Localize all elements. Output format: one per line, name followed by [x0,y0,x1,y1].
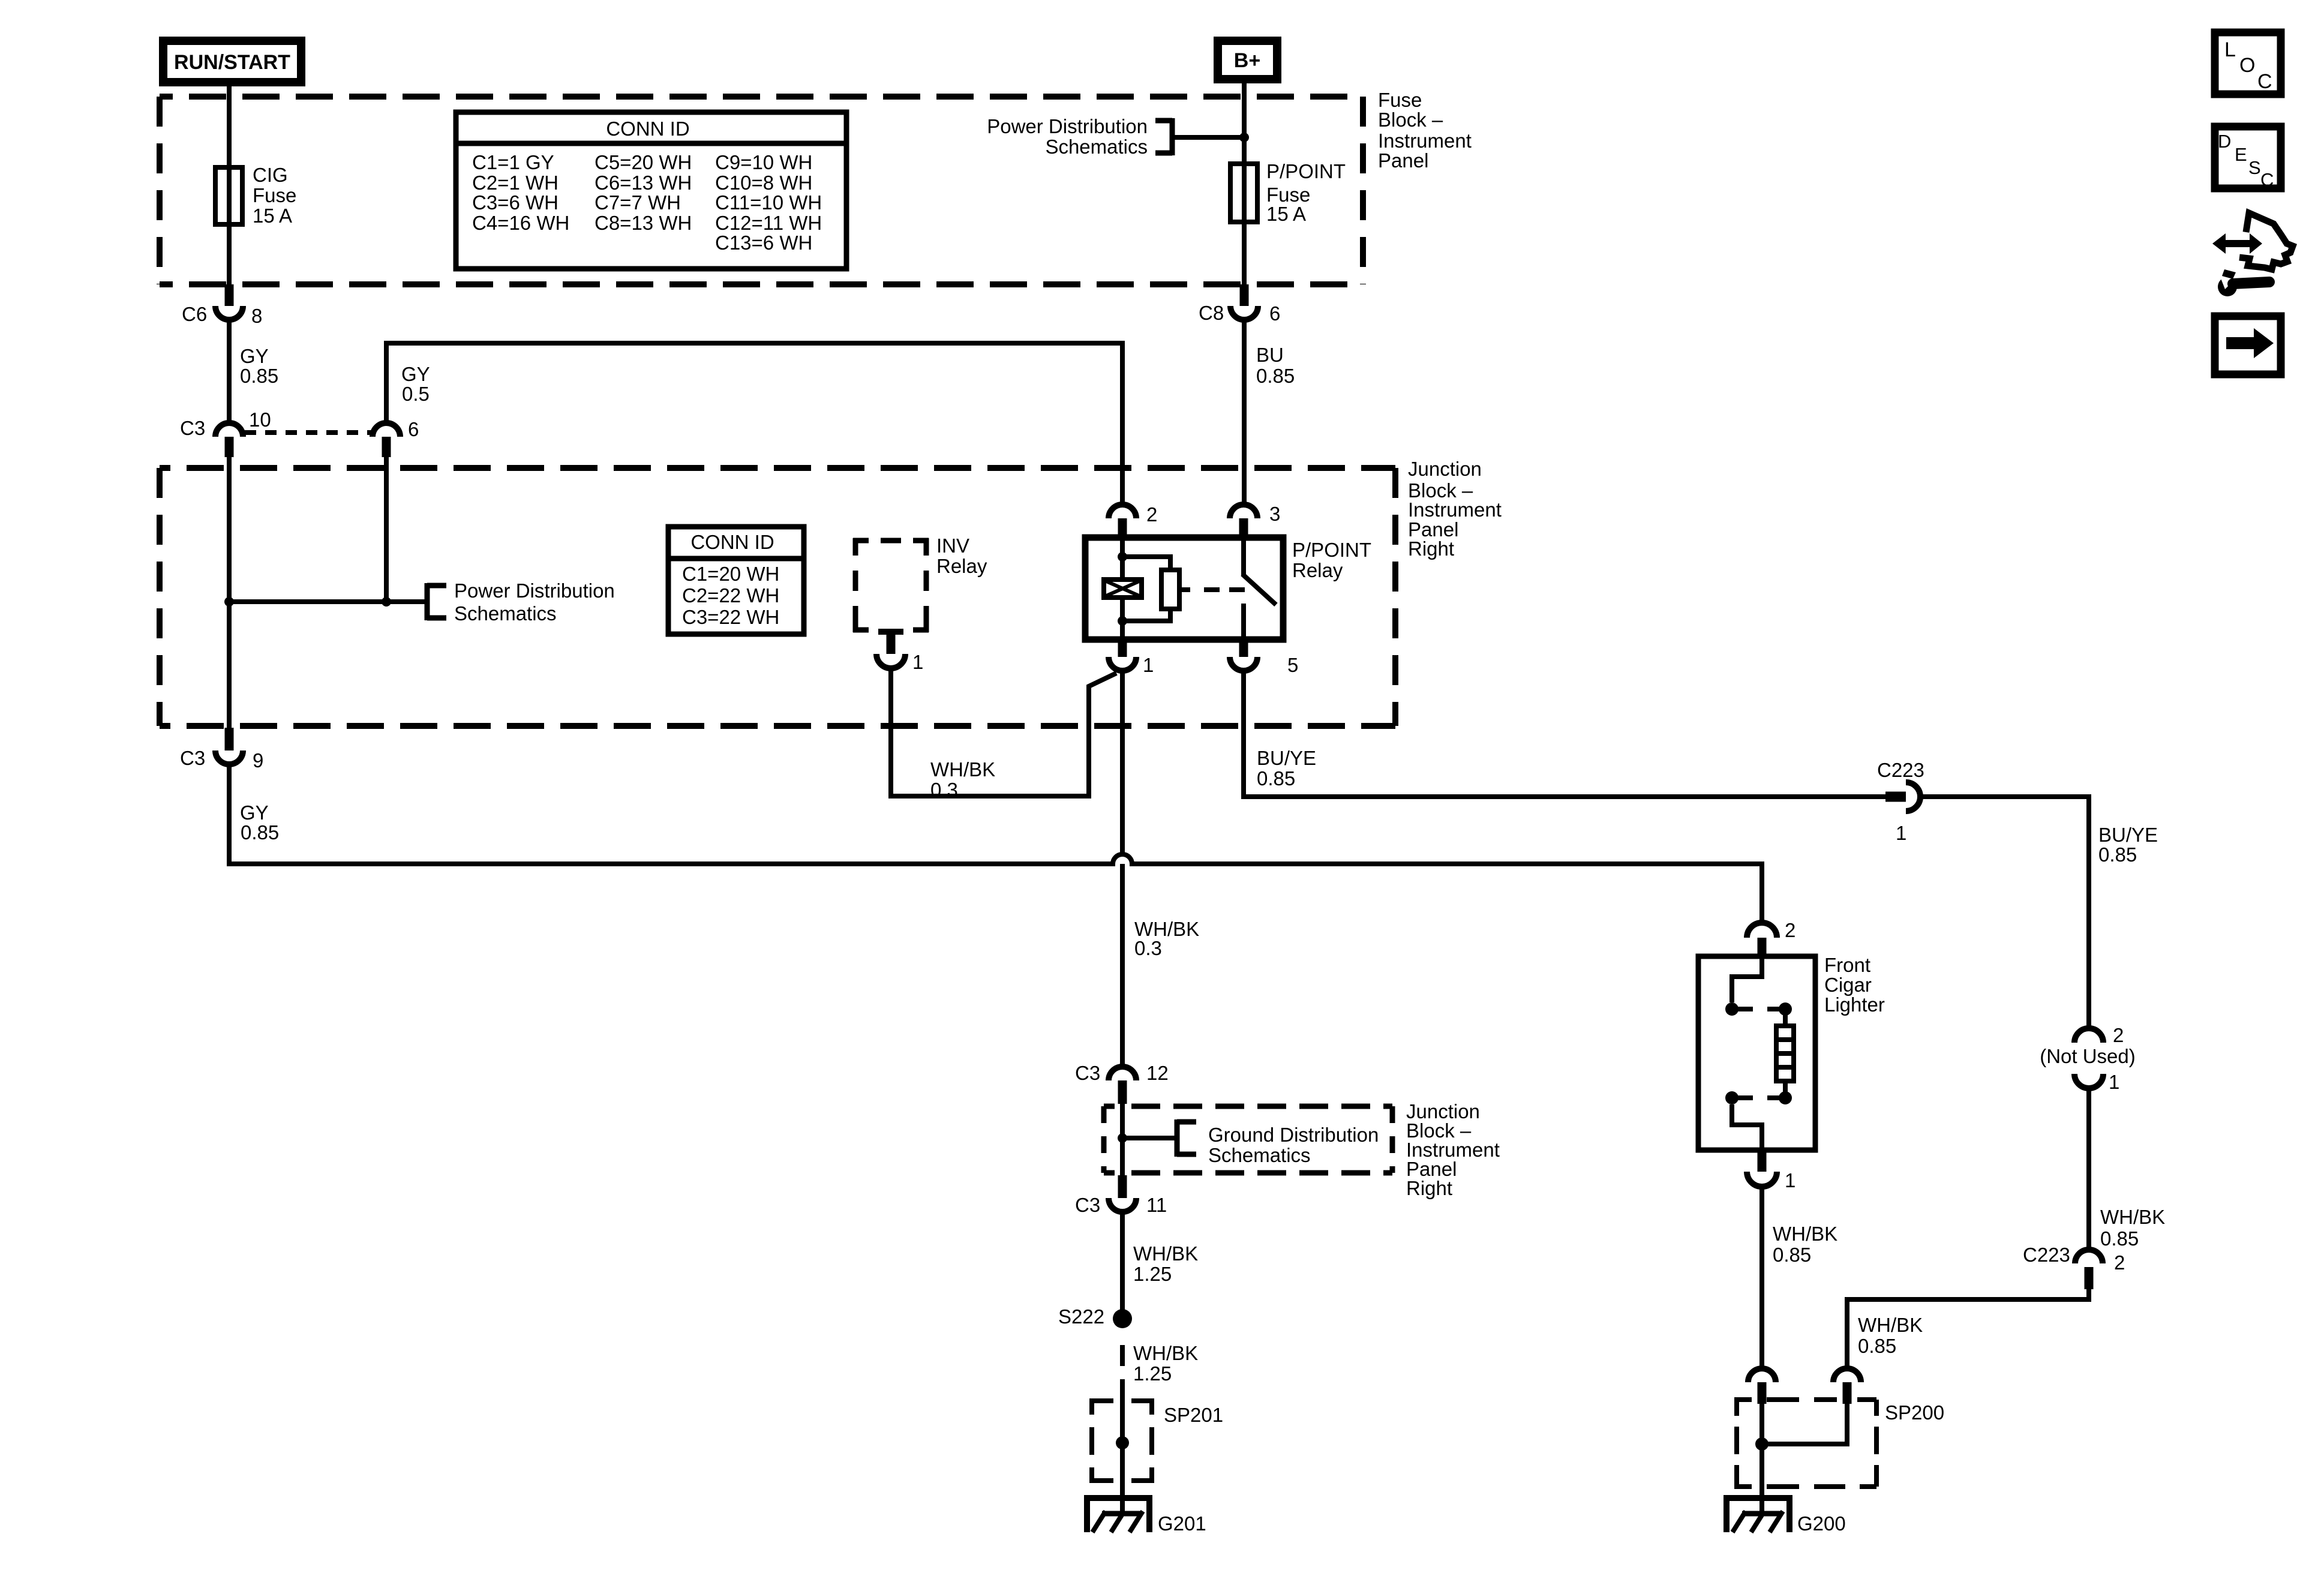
wire SP201 to G201 [1120,1443,1125,1514]
svg-text:RUN/START: RUN/START [174,51,290,74]
svg-text:SP200: SP200 [1885,1401,1944,1424]
svg-text:O: O [2239,54,2255,77]
svg-text:0.85: 0.85 [2100,1227,2139,1250]
svg-text:(Not Used): (Not Used) [2040,1045,2136,1067]
svg-text:Right: Right [1408,538,1454,560]
connector pin 6 (junction block) [373,418,419,457]
svg-text:Lighter: Lighter [1824,993,1885,1016]
svg-text:2: 2 [2114,1251,2125,1274]
net label WH/BK 0.85 (cigar lighter) [1773,1223,1837,1266]
svg-text:1: 1 [1896,822,1906,844]
svg-text:C1=1 GY: C1=1 GY [472,151,554,173]
svg-text:Panel: Panel [1378,149,1428,172]
svg-text:1: 1 [1785,1169,1795,1191]
svg-text:S: S [2248,157,2261,178]
svg-text:6: 6 [408,418,419,440]
wire GY 0.85 C6 to C3 [227,320,232,423]
connector C8 pin 6 [1199,284,1280,325]
svg-text:C13=6 WH: C13=6 WH [715,232,812,254]
wire GY 0.5 stub inside junction block [384,457,389,602]
pin 2 of front cigar lighter [1747,919,1795,959]
svg-text:Instrument: Instrument [1378,130,1472,152]
svg-text:3: 3 [1269,503,1280,525]
connector (Not Used) pin 2 half [2074,1024,2124,1046]
svg-text:C7=7 WH: C7=7 WH [594,191,681,214]
wire tap to power distribution bracket (junction block) [229,599,427,604]
svg-text:0.85: 0.85 [1858,1335,1896,1357]
icon LOC box [2215,32,2281,94]
wire WH/BK 0.85 C223-2 to SP200 [1847,1287,2089,1368]
svg-text:5: 5 [1287,654,1298,676]
svg-text:C: C [2260,169,2274,190]
svg-text:0.5: 0.5 [402,383,430,405]
svg-text:Power Distribution: Power Distribution [987,115,1148,137]
svg-text:2: 2 [1785,919,1795,941]
svg-text:GY: GY [240,801,269,824]
node junction dot GY tap right [382,597,391,607]
svg-text:E: E [2235,144,2247,165]
svg-text:WH/BK: WH/BK [1773,1223,1837,1245]
wire WH/BK 0.3 INV relay pin1 to P/POINT relay pin1 [891,668,1116,796]
wire to power distribution bracket [1175,135,1244,140]
label Front Cigar Lighter [1824,954,1885,1016]
svg-text:2: 2 [2113,1024,2124,1046]
svg-text:Front: Front [1824,954,1870,976]
svg-text:0.85: 0.85 [1773,1244,1811,1266]
power feed box B+ [1214,37,1281,83]
svg-text:Junction: Junction [1408,458,1482,480]
net label BU/YE 0.85 [1257,747,1316,789]
cigar lighter heating element resistor [1776,1009,1794,1098]
net label WH/BK 0.85 (above C223-2) [2100,1206,2165,1250]
table CONN ID (fuse block) [456,112,846,269]
wire BU/YE 0.85 relay pin 5 to C223 [1244,671,1885,797]
node junction dot GY tap left [224,597,234,607]
svg-text:C3=22 WH: C3=22 WH [682,606,779,628]
svg-text:CIG: CIG [253,164,288,186]
bracket Power Distribution Schematics (fuse block) [1155,118,1172,155]
svg-text:C223: C223 [1877,759,1924,781]
component Front Cigar Lighter box [1698,956,1815,1150]
svg-text:INV: INV [936,535,969,557]
wire BU/YE 0.85 C223 to not-used connector [1920,797,2089,1028]
svg-text:1.25: 1.25 [1133,1263,1172,1285]
svg-text:9: 9 [253,749,263,772]
svg-text:C10=8 WH: C10=8 WH [715,172,812,194]
junction block 2 dashed box: Junction Block - Instrument Panel Right [1104,1106,1392,1173]
svg-text:0.85: 0.85 [1257,767,1295,789]
connector C3 pin 11 [1075,1175,1167,1216]
cigar lighter internal return jog (bottom) [1732,1104,1762,1150]
svg-text:Fuse: Fuse [1378,89,1422,111]
net label GY 0.5 [401,363,430,405]
svg-text:S222: S222 [1058,1305,1104,1328]
svg-text:0.85: 0.85 [241,821,279,843]
node junction dot B+ tap [1239,133,1249,142]
svg-text:Schematics: Schematics [1045,136,1148,158]
svg-text:C3: C3 [1075,1062,1100,1084]
svg-text:C1=20 WH: C1=20 WH [682,563,779,585]
svg-text:2: 2 [1146,503,1157,526]
wires inside SP200 [1762,1404,1847,1514]
svg-text:Power Distribution: Power Distribution [454,580,615,602]
icon component view (arrow, outline, wrench) [2212,213,2293,296]
wire P/POINT fuse to C8 [1242,222,1247,286]
relay switch contact [1242,538,1276,640]
svg-text:15 A: 15 A [1266,203,1306,225]
svg-text:WH/BK: WH/BK [1133,1342,1198,1364]
splice pack SP200 dashed box [1734,1400,1944,1487]
svg-text:D: D [2218,131,2231,152]
relay actuator dashed linkage [1204,587,1247,592]
splice S222 [1058,1305,1132,1328]
wire WH/BK 1.25 C3-11 to S222 [1120,1212,1125,1313]
svg-text:C3: C3 [1075,1194,1100,1216]
fuse block dashed box: Fuse Block - Instrument Panel [160,97,1363,284]
svg-text:CONN ID: CONN ID [606,118,689,140]
net label WH/BK 1.25 (upper) [1133,1242,1198,1285]
connector C6 pin 8 [182,284,262,327]
wire WH/BK 1.25 S222 to SP201 (dashed then solid) [1120,1345,1125,1448]
svg-text:C6=13 WH: C6=13 WH [594,172,692,194]
relay coil (winding) [1104,538,1142,640]
svg-text:C5=20 WH: C5=20 WH [594,151,692,173]
svg-text:P/POINT: P/POINT [1266,160,1346,182]
pin 5 of P/POINT relay [1230,640,1298,676]
svg-text:L: L [2224,38,2236,61]
svg-text:15 A: 15 A [253,205,292,227]
bracket Power Distribution Schematics (junction block) [427,583,446,620]
cigar lighter bottom contacts with gap [1725,1091,1792,1104]
net label WH/BK 0.3 (left) [930,758,995,801]
svg-text:CONN ID: CONN ID [690,531,774,553]
svg-text:8: 8 [251,305,262,327]
svg-text:BU/YE: BU/YE [2098,824,2158,846]
relay P/POINT Relay box [1085,538,1283,640]
svg-text:BU/YE: BU/YE [1257,747,1316,769]
svg-text:C12=11 WH: C12=11 WH [715,212,822,234]
svg-text:C223: C223 [2023,1244,2070,1266]
svg-text:Schematics: Schematics [1208,1144,1311,1166]
net label BU/YE 0.85 (right) [2098,824,2158,866]
svg-text:10: 10 [249,409,271,431]
label P/POINT Relay [1292,539,1371,581]
svg-text:Relay: Relay [936,555,987,577]
power feed box RUN/START [159,37,305,86]
label Junction Block - Instrument Panel Right [1408,458,1502,560]
svg-text:WH/BK: WH/BK [2100,1206,2165,1228]
relay suppression resistor (parallel) [1122,557,1190,621]
svg-text:1.25: 1.25 [1133,1362,1172,1385]
SP200 left entry connector [1748,1368,1776,1404]
net label WH/BK 1.25 (lower) [1133,1342,1198,1385]
wire inside junction block 2 [1120,1104,1125,1175]
node SP200 splice dot [1755,1437,1768,1451]
label Junction Block - Instrument Panel Right (lower) [1406,1100,1500,1199]
svg-text:C6: C6 [182,303,207,325]
svg-text:B+: B+ [1234,49,1260,72]
svg-text:Instrument: Instrument [1408,499,1502,521]
svg-text:BU: BU [1256,344,1284,366]
svg-text:WH/BK: WH/BK [1858,1314,1923,1336]
wire WH/BK 0.85 cigar lighter to SP200 [1759,1187,1764,1368]
svg-text:C3: C3 [180,747,205,769]
net label BU 0.85 [1256,344,1295,387]
svg-text:0.3: 0.3 [1134,937,1162,959]
junction block dashed box: Junction Block - Instrument Panel Right [160,468,1395,726]
wire GY 0.5 riser and run to relay pin 2 [386,343,1122,505]
svg-text:Schematics: Schematics [454,602,557,625]
connector C3 pin 12 [1075,1062,1169,1104]
wire GY 0.85 inside junction block [227,457,232,728]
svg-text:11: 11 [1146,1194,1167,1216]
svg-text:0.85: 0.85 [1256,365,1295,387]
svg-text:C9=10 WH: C9=10 WH [715,151,812,173]
connector (Not Used) pin 1 half [2074,1071,2119,1093]
table CONN ID (junction block) [668,527,804,634]
svg-text:C3=6 WH: C3=6 WH [472,191,559,214]
pin 3 of P/POINT relay [1230,503,1280,538]
node SP201 splice dot [1116,1436,1129,1449]
icon DESC box [2215,127,2281,190]
wire GY 0.85 to front cigar lighter (with hop over WH/BK) [229,764,1762,923]
node coil bottom junction [1118,616,1127,626]
icon forward arrow box [2215,316,2281,374]
pin 1 of front cigar lighter [1747,1150,1795,1191]
svg-text:0.3: 0.3 [930,779,958,801]
node coil top junction [1118,552,1127,562]
connector C223 pin 2 [2023,1244,2125,1289]
svg-text:C3: C3 [180,417,205,439]
value label P/POINT Fuse 15 A [1266,160,1346,225]
svg-text:GY: GY [240,345,269,367]
label Power Distribution Schematics (fuse block) [987,115,1148,158]
ground G200 [1724,1495,1846,1535]
svg-text:GY: GY [401,363,430,385]
pin 1 of INV relay [876,632,923,673]
svg-text:6: 6 [1269,302,1280,325]
net label WH/BK 0.85 (to SP200 right) [1858,1314,1923,1357]
wire WH/BK 0.3 relay pin 1 down [1120,671,1125,1065]
fuse CIG Fuse 15 A [215,167,242,224]
cigar lighter internal feed jog (top) [1732,959,1762,1002]
svg-text:C2=22 WH: C2=22 WH [682,584,779,607]
wire dashed jumper C3-10 to pin 6 [245,430,371,435]
svg-text:Ground Distribution: Ground Distribution [1208,1124,1379,1146]
net label GY 0.85 [240,345,278,387]
pin 1 of P/POINT relay [1109,640,1154,676]
svg-text:C4=16 WH: C4=16 WH [472,212,569,234]
connector C223 pin 1 (inline) [1877,759,1924,844]
net label WH/BK 0.3 (vertical run) [1134,918,1199,959]
label Ground Distribution Schematics [1208,1124,1379,1166]
svg-text:1: 1 [1143,654,1154,676]
wire WH/BK 0.85 not-used to C223-2 [2086,1088,2091,1250]
ground G201 [1084,1495,1206,1535]
svg-text:Right: Right [1406,1177,1452,1199]
wire BU 0.85 C8 to relay pin 3 [1242,320,1247,505]
svg-text:12: 12 [1146,1062,1169,1084]
cigar lighter top contacts with gap [1725,1002,1792,1016]
svg-text:C8: C8 [1199,302,1224,324]
svg-text:Fuse: Fuse [253,184,296,206]
svg-text:WH/BK: WH/BK [1133,1242,1198,1265]
wire tap to ground distribution bracket [1122,1136,1177,1140]
connector C3 pin 9 [180,728,263,772]
svg-text:C: C [2257,70,2272,93]
svg-text:C2=1 WH: C2=1 WH [472,172,559,194]
bracket Ground Distribution Schematics [1177,1119,1196,1157]
relay INV Relay dashed outline [853,538,929,632]
value label CIG Fuse 15 A [253,164,296,227]
wire B+ drop [1242,83,1247,164]
label (Not Used) [2040,1045,2136,1067]
svg-text:C8=13 WH: C8=13 WH [594,212,692,234]
svg-text:Cigar: Cigar [1824,974,1872,996]
svg-text:P/POINT: P/POINT [1292,539,1371,561]
net label GY 0.85 (lower) [240,801,279,843]
svg-text:G201: G201 [1158,1512,1206,1535]
splice pack SP201 dashed box [1089,1401,1223,1481]
wire RUN/START to CIG fuse to C6 [227,86,232,286]
svg-text:0.85: 0.85 [2098,843,2137,866]
pin 2 of P/POINT relay [1109,503,1157,538]
SP200 right entry connector [1833,1368,1861,1404]
svg-text:0.85: 0.85 [240,365,278,387]
label Power Distribution Schematics (junction block) [454,580,615,625]
svg-text:G200: G200 [1797,1512,1846,1535]
svg-text:1: 1 [912,651,923,673]
fuse P/POINT Fuse 15 A [1230,164,1257,222]
svg-text:SP201: SP201 [1164,1404,1223,1426]
svg-text:C11=10 WH: C11=10 WH [715,191,822,214]
svg-text:1: 1 [2109,1071,2119,1093]
node junction dot ground distribution tap [1118,1133,1127,1143]
svg-text:Block –: Block – [1378,109,1443,131]
connector C3 pin 10 [180,409,271,457]
svg-text:WH/BK: WH/BK [930,758,995,781]
svg-text:Relay: Relay [1292,559,1343,581]
label INV Relay [936,535,987,577]
label Fuse Block - Instrument Panel [1378,89,1472,172]
